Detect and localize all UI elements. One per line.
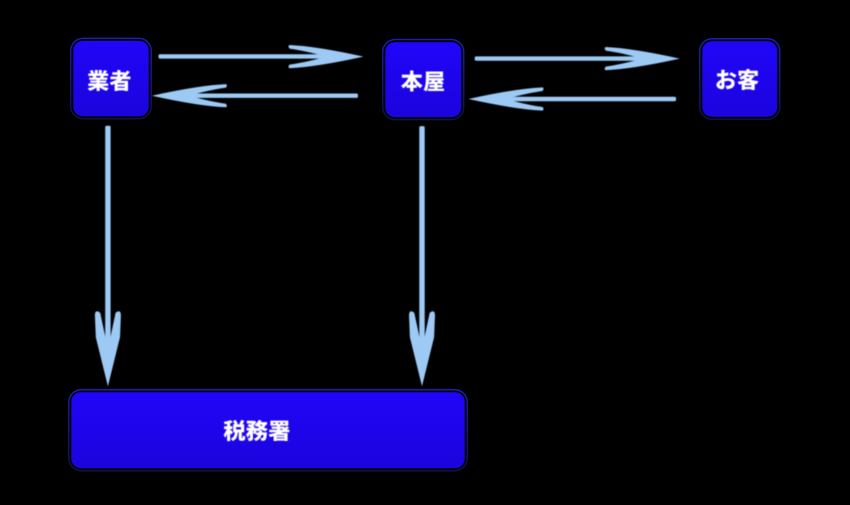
arrow 本屋 down to 税務署: wire shaft + concave head: [409, 126, 435, 386]
box 税務署 (tax office): [69, 390, 468, 471]
arrow 本屋 to お客 (pointing right): wire shaft + concave head: [475, 47, 680, 70]
arrow 本屋 to 業者 (pointing left): wire shaft + concave head: [152, 84, 358, 107]
label 税務署: [224, 420, 290, 441]
label 業者: [88, 70, 131, 91]
arrow 業者 to 本屋 (top, pointing right): wire shaft + concave head: [159, 45, 364, 68]
label お客: [716, 69, 758, 90]
label 本屋: [401, 71, 444, 92]
box お客 (customer): [700, 39, 780, 120]
arrow お客 to 本屋 (pointing left): wire shaft + concave head: [469, 87, 677, 110]
box 本屋 (bookstore): [383, 40, 464, 120]
box 業者 (dealer): [71, 38, 152, 118]
arrow 業者 down to 税務署: wire shaft + concave head: [95, 126, 121, 387]
